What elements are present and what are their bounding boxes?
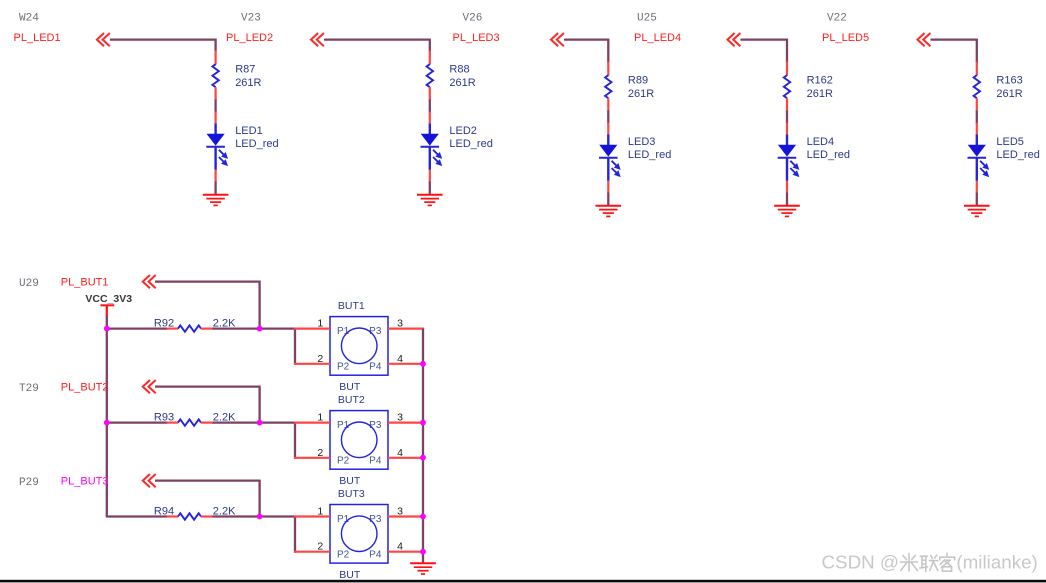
grid ref V22 <box>827 13 847 25</box>
net label PL_BUT1 <box>61 276 109 288</box>
svg-text:BUT: BUT <box>339 569 361 581</box>
power symbol VCC_3V3 <box>85 293 132 317</box>
svg-text:P2: P2 <box>337 549 350 560</box>
resistor R93 2.2K <box>154 412 236 426</box>
LED LED1 LED_red <box>206 112 278 183</box>
svg-text:LED_red: LED_red <box>996 149 1039 161</box>
svg-text:PL_LED3: PL_LED3 <box>453 32 500 44</box>
svg-text:261R: 261R <box>449 77 475 89</box>
junction <box>104 326 110 332</box>
svg-text:4: 4 <box>397 541 403 553</box>
net label PL_LED2 <box>226 32 273 44</box>
port chevron PL_LED1 <box>97 33 110 46</box>
junction <box>420 420 426 426</box>
wire <box>429 100 431 113</box>
svg-text:PL_BUT2: PL_BUT2 <box>61 381 109 393</box>
svg-text:2: 2 <box>317 447 323 459</box>
pin 3 <box>388 318 424 330</box>
svg-text:2: 2 <box>317 353 323 365</box>
svg-text:P3: P3 <box>369 420 382 431</box>
wire <box>976 193 978 206</box>
svg-text:LED5: LED5 <box>996 136 1024 148</box>
svg-text:P29: P29 <box>19 477 39 489</box>
svg-text:3: 3 <box>397 506 403 518</box>
net label PL_LED5 <box>822 32 869 44</box>
port chevron PL_BUT1 <box>143 275 156 288</box>
svg-text:PL_LED2: PL_LED2 <box>226 32 273 44</box>
wire <box>107 327 168 329</box>
ground <box>410 563 436 574</box>
svg-text:R93: R93 <box>154 412 174 424</box>
port chevron PL_LED2 <box>311 33 324 46</box>
svg-text:W24: W24 <box>19 13 39 25</box>
svg-text:261R: 261R <box>235 77 261 89</box>
LED LED5 LED_red <box>968 123 1040 194</box>
port chevron PL_LED5 <box>918 33 931 46</box>
button BUT2 BUT <box>330 394 388 487</box>
wire vertical bus VCC_3V3 <box>106 316 108 517</box>
resistor R162 261R <box>784 62 833 112</box>
pin 4 <box>388 541 424 553</box>
LED LED4 LED_red <box>778 123 850 194</box>
wire <box>213 516 296 553</box>
watermark <box>821 552 1037 573</box>
wire <box>155 386 260 423</box>
wire <box>786 111 788 124</box>
svg-text:LED_red: LED_red <box>628 149 671 161</box>
svg-text:R88: R88 <box>449 63 469 75</box>
junction <box>420 361 426 367</box>
svg-text:R87: R87 <box>235 63 255 75</box>
svg-text:R162: R162 <box>807 74 833 86</box>
ground <box>596 206 622 217</box>
svg-text:1: 1 <box>317 506 323 518</box>
svg-text:T29: T29 <box>19 383 39 395</box>
svg-text:LED_red: LED_red <box>235 138 278 150</box>
wire <box>324 39 430 52</box>
svg-text:PL_BUT3: PL_BUT3 <box>61 475 109 487</box>
wire <box>976 111 978 124</box>
svg-text:3: 3 <box>397 412 403 424</box>
resistor R87 261R <box>212 51 261 101</box>
svg-text:2: 2 <box>317 541 323 553</box>
resistor R92 2.2K <box>154 318 236 332</box>
svg-text:P2: P2 <box>337 456 350 467</box>
wire <box>214 182 216 195</box>
resistor R88 261R <box>427 51 476 101</box>
junction <box>420 549 426 555</box>
resistor R89 261R <box>605 62 654 112</box>
svg-text:261R: 261R <box>807 88 833 100</box>
button BUT3 BUT <box>330 488 388 581</box>
svg-text:3: 3 <box>397 318 403 330</box>
svg-text:BUT: BUT <box>339 381 361 393</box>
svg-text:LED4: LED4 <box>807 136 835 148</box>
svg-text:PL_LED4: PL_LED4 <box>634 32 681 44</box>
svg-text:P4: P4 <box>369 456 382 467</box>
grid ref U25 <box>637 13 657 25</box>
junction <box>104 420 110 426</box>
pin 4 <box>388 447 424 459</box>
ground <box>964 206 990 217</box>
svg-text:LED3: LED3 <box>628 136 656 148</box>
wire <box>213 422 296 459</box>
resistor R94 2.2K <box>154 506 236 520</box>
ground <box>417 195 443 206</box>
svg-text:R94: R94 <box>154 506 174 518</box>
pin 1 <box>294 506 330 518</box>
grid ref U29 <box>19 278 39 290</box>
svg-text:1: 1 <box>317 318 323 330</box>
svg-text:1: 1 <box>317 412 323 424</box>
svg-text:V26: V26 <box>463 13 483 25</box>
pin 4 <box>388 353 424 365</box>
port chevron PL_LED4 <box>728 33 741 46</box>
ground <box>203 195 229 206</box>
svg-text:LED_red: LED_red <box>807 149 850 161</box>
svg-text:V23: V23 <box>241 13 261 25</box>
svg-text:P3: P3 <box>369 326 382 337</box>
svg-text:PL_LED5: PL_LED5 <box>822 32 869 44</box>
net label PL_BUT3 <box>61 475 109 487</box>
svg-text:BUT3: BUT3 <box>338 488 365 500</box>
wire <box>429 182 431 195</box>
svg-text:4: 4 <box>397 447 403 459</box>
wire <box>564 39 608 63</box>
junction <box>257 420 263 426</box>
grid ref P29 <box>19 477 39 489</box>
wire <box>107 421 168 423</box>
wire <box>607 193 609 206</box>
svg-text:P4: P4 <box>369 362 382 373</box>
wire <box>741 39 788 63</box>
svg-text:261R: 261R <box>628 88 654 100</box>
ground <box>774 206 800 217</box>
port chevron PL_BUT2 <box>143 380 156 393</box>
LED LED3 LED_red <box>599 123 671 194</box>
svg-text:V22: V22 <box>827 13 847 25</box>
svg-text:(milianke): (milianke) <box>956 552 1037 573</box>
svg-text:LED1: LED1 <box>235 125 263 137</box>
pin 3 <box>388 412 424 424</box>
net label PL_LED4 <box>634 32 681 44</box>
svg-text:4: 4 <box>397 353 403 365</box>
grid ref V26 <box>463 13 483 25</box>
svg-text:BUT2: BUT2 <box>338 394 365 406</box>
svg-text:261R: 261R <box>996 88 1022 100</box>
pin 2 <box>294 353 330 365</box>
wire <box>213 328 296 365</box>
wire <box>155 480 260 517</box>
LED LED2 LED_red <box>421 112 493 183</box>
svg-text:PL_BUT1: PL_BUT1 <box>61 276 109 288</box>
svg-text:BUT1: BUT1 <box>338 300 365 312</box>
svg-text:CSDN @: CSDN @ <box>821 552 899 573</box>
wire <box>214 100 216 113</box>
port chevron PL_BUT3 <box>143 474 156 487</box>
wire <box>931 39 977 63</box>
pin 2 <box>294 541 330 553</box>
junction <box>257 326 263 332</box>
sheet border <box>0 580 1046 583</box>
net label PL_LED1 <box>14 32 61 44</box>
wire <box>110 39 216 52</box>
grid ref W24 <box>19 13 39 25</box>
pin 1 <box>294 318 330 330</box>
svg-text:R89: R89 <box>628 74 648 86</box>
svg-text:BUT: BUT <box>339 475 361 487</box>
svg-text:R92: R92 <box>154 318 174 330</box>
wire <box>155 281 260 329</box>
svg-text:P4: P4 <box>369 549 382 560</box>
svg-text:R163: R163 <box>996 74 1022 86</box>
wire <box>607 111 609 124</box>
grid ref V23 <box>241 13 261 25</box>
pin 2 <box>294 447 330 459</box>
junction <box>420 514 426 520</box>
button BUT1 BUT <box>330 300 388 393</box>
net label PL_BUT2 <box>61 381 109 393</box>
resistor R163 261R <box>974 62 1023 112</box>
svg-text:U29: U29 <box>19 278 39 290</box>
svg-text:LED2: LED2 <box>449 125 477 137</box>
svg-text:LED_red: LED_red <box>449 138 492 150</box>
pin 3 <box>388 506 424 518</box>
port chevron PL_LED3 <box>551 33 564 46</box>
svg-text:P2: P2 <box>337 362 350 373</box>
net label PL_LED3 <box>453 32 500 44</box>
junction <box>257 514 263 520</box>
svg-text:PL_LED1: PL_LED1 <box>14 32 61 44</box>
junction <box>420 455 426 461</box>
wire <box>106 515 168 517</box>
svg-text:U25: U25 <box>637 13 657 25</box>
wire <box>786 193 788 206</box>
grid ref T29 <box>19 383 39 395</box>
svg-text:VCC_3V3: VCC_3V3 <box>85 293 132 305</box>
svg-text:P3: P3 <box>369 514 382 525</box>
wire right bus <box>422 329 424 564</box>
pin 1 <box>294 412 330 424</box>
